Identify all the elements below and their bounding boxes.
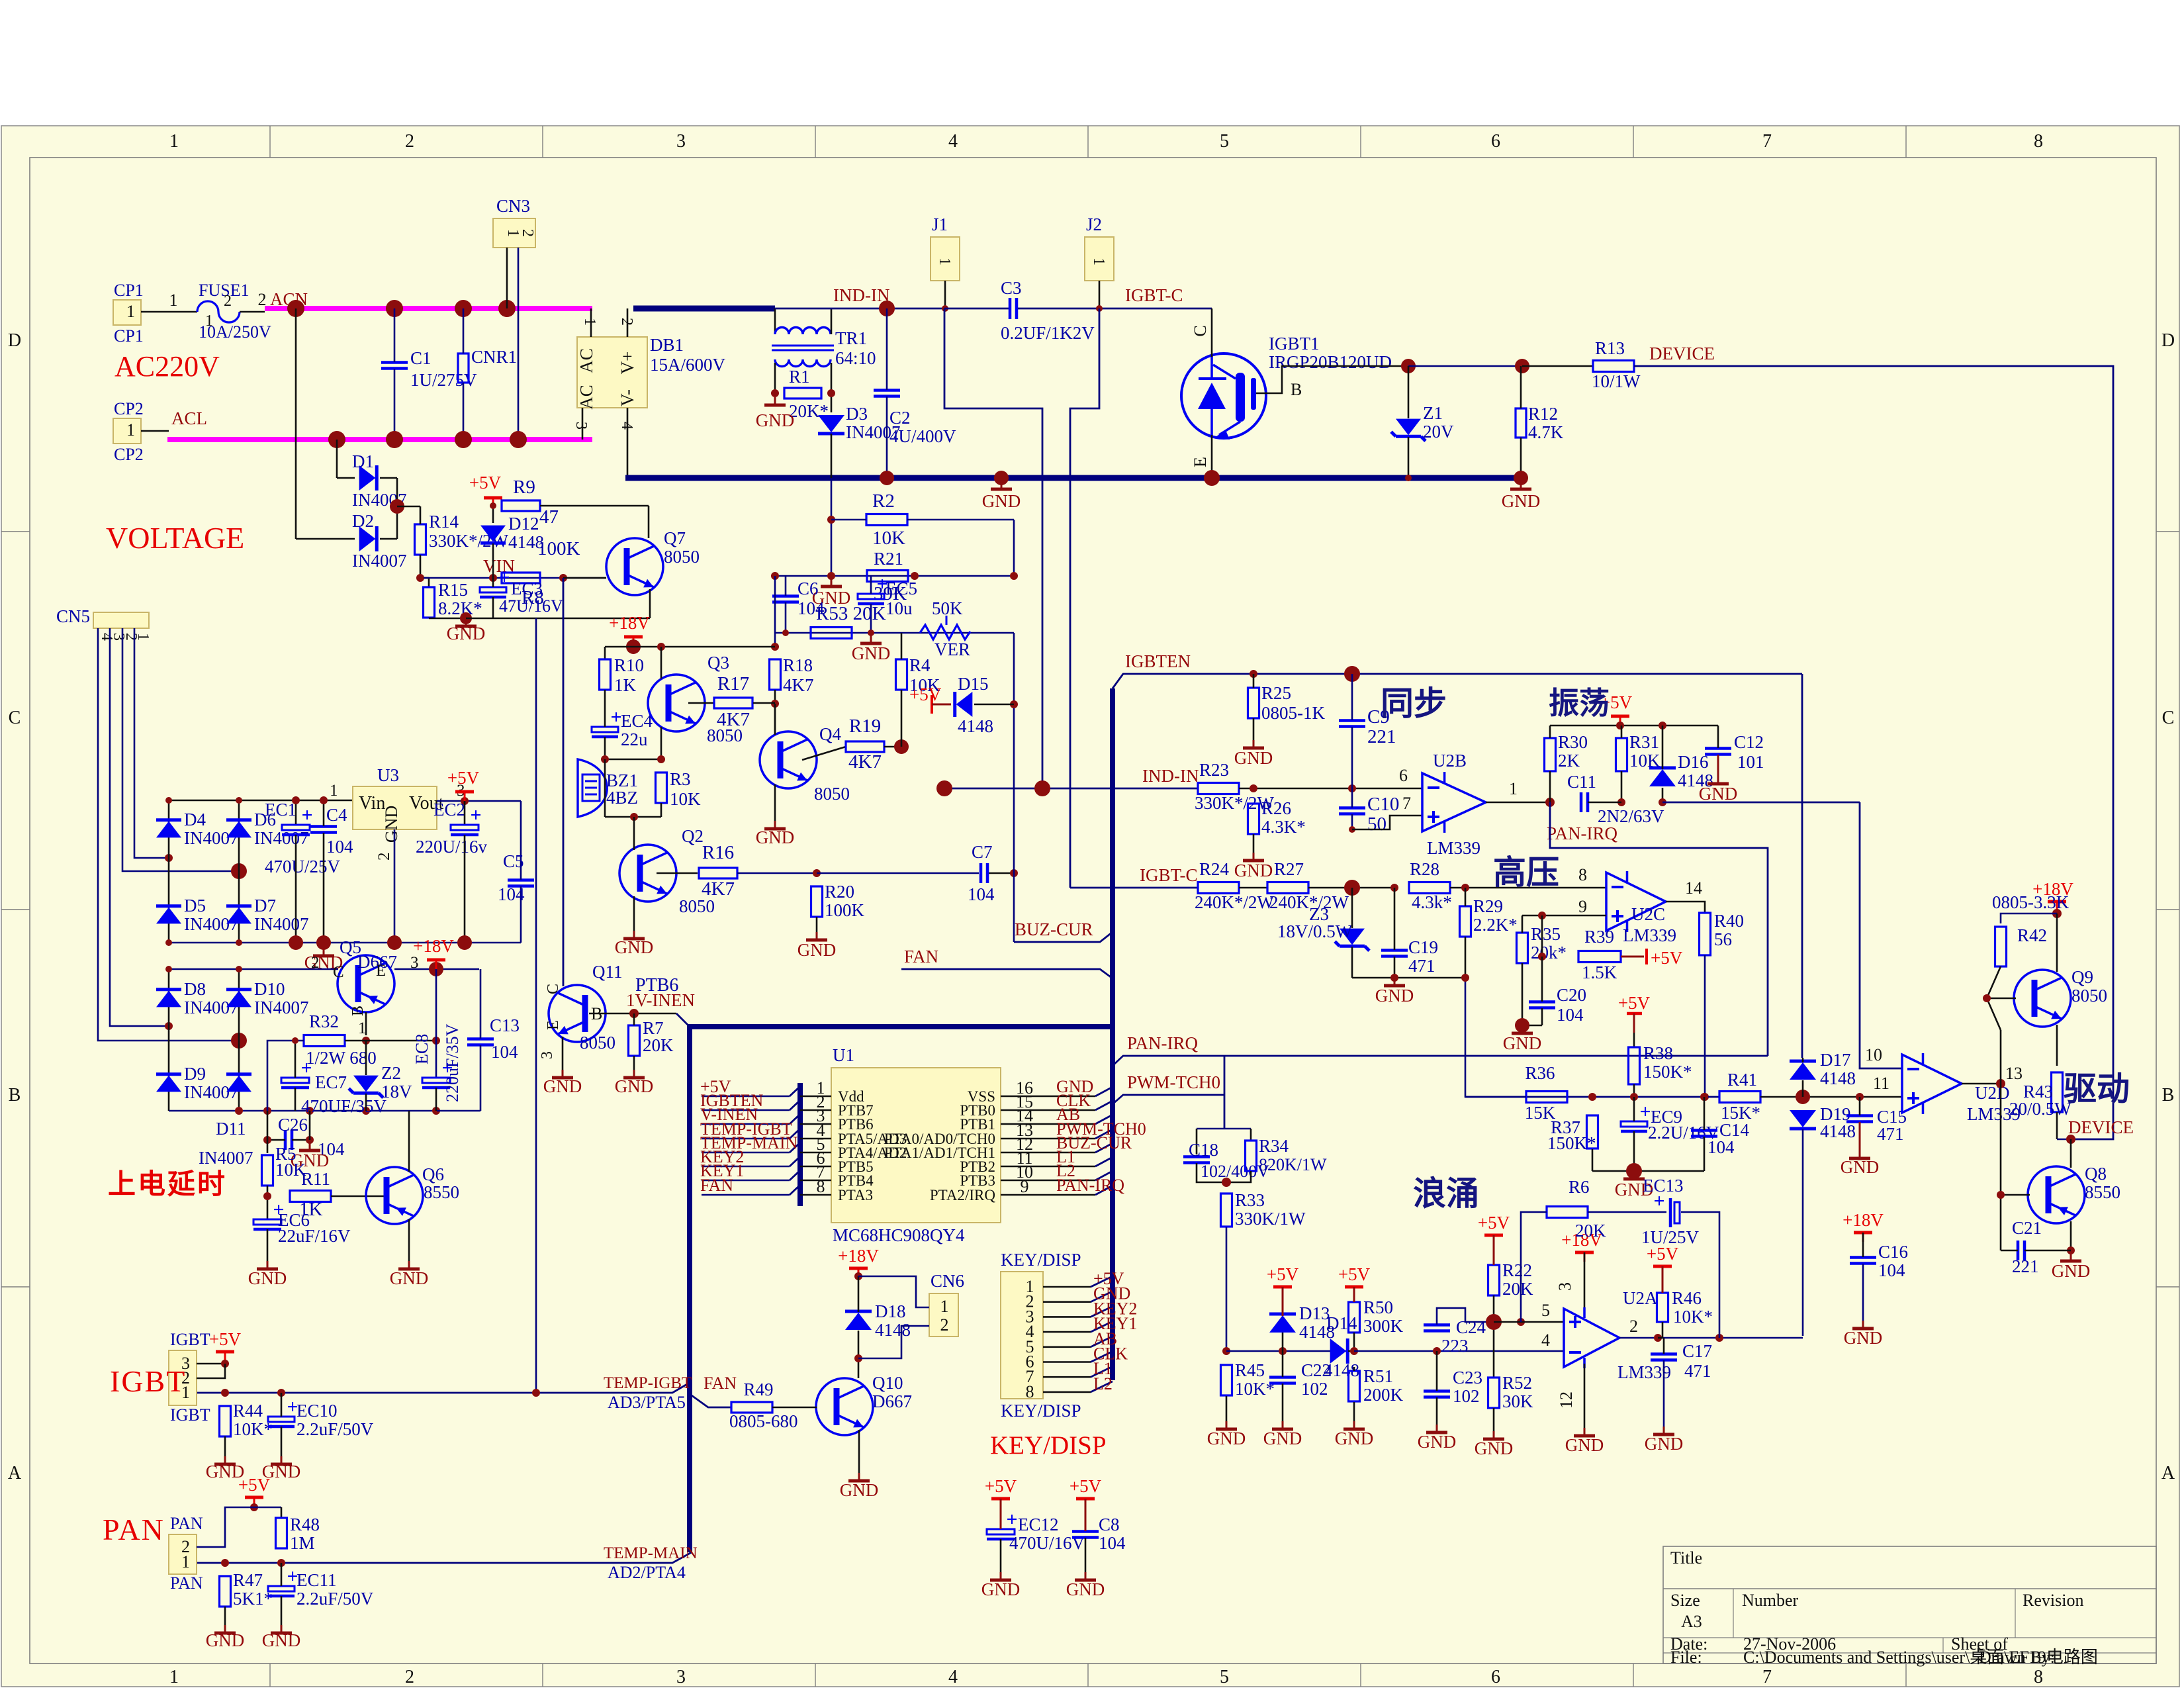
capacitor EC7 — [281, 1078, 309, 1083]
svg-text:+5V: +5V — [469, 473, 502, 492]
svg-text:V+: V+ — [617, 352, 637, 375]
svg-text:R11: R11 — [301, 1169, 330, 1189]
wire R38 bot — [1633, 1084, 1635, 1097]
connector J1 — [931, 237, 960, 281]
ground Q2 — [633, 931, 635, 937]
svg-text:高压: 高压 — [1493, 854, 1559, 891]
svg-text:A: A — [8, 1463, 22, 1483]
junction D10D11 mid — [231, 1033, 247, 1049]
wire U1 pin15 CLK — [1001, 1109, 1095, 1111]
svg-text:PAN-IRQ: PAN-IRQ — [1056, 1176, 1124, 1195]
diode D15 — [953, 692, 956, 717]
wire C14 — [1704, 1097, 1706, 1130]
svg-text:GND: GND — [1565, 1435, 1604, 1455]
svg-text:R4: R4 — [909, 655, 931, 675]
wire R5 col — [267, 1111, 269, 1153]
junction bz1 b — [657, 755, 665, 763]
ground EC5 — [870, 635, 872, 642]
wire D1/D2 join — [380, 477, 397, 479]
svg-text:150K*: 150K* — [1643, 1062, 1692, 1082]
svg-text:E: E — [1191, 457, 1210, 467]
capacitor C23 — [1424, 1389, 1450, 1393]
junction +5V R9 — [490, 502, 496, 509]
junction Q5 base — [362, 1037, 370, 1045]
svg-text:102: 102 — [1453, 1386, 1480, 1406]
ground R51 — [1353, 1421, 1355, 1428]
connector J2 — [1085, 237, 1114, 281]
svg-text:R22: R22 — [1502, 1260, 1532, 1280]
svg-text:IN4007: IN4007 — [199, 1148, 253, 1168]
junction EC11 top — [277, 1559, 285, 1567]
wire R39 row — [1541, 915, 1543, 957]
svg-text:Z1: Z1 — [1423, 403, 1443, 423]
junction Z3 — [1344, 880, 1360, 896]
wire Q7 emitter — [649, 589, 651, 618]
title block row line 2 — [1663, 1637, 2156, 1638]
ground R45 — [1226, 1421, 1228, 1428]
svg-text:EC10: EC10 — [296, 1401, 338, 1421]
svg-text:TEMP-IGBT: TEMP-IGBT — [604, 1374, 692, 1392]
svg-text:GND: GND — [1844, 1328, 1883, 1348]
wire U1 pin14 AB — [1001, 1123, 1095, 1125]
junction +18V Q5 — [429, 962, 443, 976]
wire D15 right — [974, 704, 1014, 706]
wire TEMP-MAIN row — [197, 1552, 692, 1563]
wire R36 left — [1465, 978, 1526, 1097]
wire U2C plus row — [1522, 915, 1606, 917]
svg-text:4.7K: 4.7K — [1528, 422, 1564, 442]
svg-text:R14: R14 — [429, 512, 459, 532]
wire base chain down — [2000, 1030, 2002, 1250]
wire R48 top — [281, 1507, 283, 1518]
svg-text:C19: C19 — [1408, 937, 1438, 957]
svg-text:1.5K: 1.5K — [1582, 962, 1617, 982]
wire PWM vertical — [1224, 1056, 1226, 1129]
junction R12 bus — [1514, 471, 1528, 485]
svg-text:8: 8 — [1578, 865, 1587, 884]
junction J1 — [942, 305, 948, 312]
ground EC6 — [267, 1261, 269, 1268]
svg-text:U2A: U2A — [1623, 1288, 1658, 1308]
bus V-INEN thick — [687, 1024, 1113, 1029]
diode D6 — [226, 818, 251, 821]
svg-text:R12: R12 — [1528, 404, 1558, 424]
frame column tick — [542, 126, 543, 158]
wire U1 pin5 TEMP-MAIN — [702, 1152, 790, 1154]
capacitor EC5 — [858, 594, 884, 599]
svg-text:8: 8 — [1026, 1382, 1034, 1401]
svg-text:9: 9 — [1021, 1177, 1029, 1196]
svg-text:浪涌: 浪涌 — [1413, 1175, 1479, 1212]
frame column tick — [1633, 126, 1634, 158]
junction row C14 — [1700, 1093, 1708, 1101]
wire VIN row — [424, 577, 606, 579]
svg-text:J2: J2 — [1086, 214, 1102, 234]
svg-text:4148: 4148 — [958, 716, 993, 736]
svg-text:R47: R47 — [233, 1570, 263, 1590]
svg-text:5: 5 — [1220, 1667, 1229, 1687]
wire Q8 collector — [2070, 1139, 2072, 1168]
junction b2 rail4 — [362, 1107, 370, 1115]
junction +5V U3 — [461, 797, 469, 805]
ground Q11 — [562, 1070, 564, 1076]
wire bz1 bottom rail — [605, 816, 661, 818]
connector CN5 — [93, 612, 149, 628]
title block row line 3 — [1663, 1652, 2156, 1654]
svg-text:D2: D2 — [352, 511, 374, 531]
svg-text:104: 104 — [498, 884, 525, 904]
junction U2C plus — [1538, 912, 1546, 919]
junction R1 right — [827, 389, 835, 397]
wire CN3 pin1 — [506, 248, 508, 308]
wire TR1 sec right — [831, 363, 833, 412]
svg-text:R15: R15 — [438, 580, 468, 600]
svg-text:GND: GND — [1263, 1429, 1302, 1448]
svg-text:Z2: Z2 — [381, 1063, 401, 1083]
wire C7 right — [989, 872, 1014, 874]
svg-text:C24: C24 — [1456, 1317, 1486, 1337]
svg-text:6: 6 — [1491, 1667, 1500, 1687]
svg-text:471: 471 — [1408, 956, 1435, 976]
svg-text:U1: U1 — [833, 1045, 854, 1065]
svg-text:CP2: CP2 — [114, 445, 144, 464]
opamp U2A plus-top — [1564, 1309, 1619, 1367]
capacitor C11 — [1580, 792, 1583, 812]
wire R24 R27 — [1239, 887, 1267, 889]
svg-text:R35: R35 — [1531, 924, 1561, 944]
svg-text:C: C — [545, 984, 562, 994]
resistor R30 — [1545, 738, 1556, 771]
svg-text:J1: J1 — [932, 214, 948, 234]
svg-text:R51: R51 — [1363, 1366, 1393, 1386]
svg-text:+18V: +18V — [1843, 1210, 1884, 1230]
wire R2 row — [831, 519, 866, 521]
wire R26 gnd — [1253, 834, 1255, 853]
junction VIN right — [559, 574, 567, 582]
svg-text:4BZ: 4BZ — [606, 788, 638, 808]
wire R25 — [1253, 674, 1255, 688]
ground C12 — [1717, 776, 1719, 782]
svg-text:IGBT: IGBT — [170, 1330, 210, 1349]
svg-text:R39: R39 — [1584, 927, 1614, 947]
junction r21 c — [911, 572, 919, 580]
svg-text:4K7: 4K7 — [717, 709, 750, 730]
svg-text:U2B: U2B — [1433, 751, 1467, 771]
wire J1 down — [944, 281, 946, 308]
svg-text:1U/25V: 1U/25V — [1641, 1227, 1700, 1247]
wire U1 pin3 V-INEN — [702, 1123, 790, 1125]
svg-text:GND: GND — [852, 643, 891, 663]
svg-text:7: 7 — [1762, 131, 1772, 152]
capacitor EC13 rotated — [1669, 1198, 1672, 1227]
junction ACL 1 — [328, 431, 345, 448]
transistor Q4 — [760, 731, 817, 788]
svg-text:101: 101 — [1737, 752, 1764, 772]
diode D3 — [818, 432, 844, 436]
svg-text:R33: R33 — [1235, 1190, 1265, 1210]
svg-text:GND: GND — [1207, 1429, 1246, 1448]
junction R46 out — [1654, 1334, 1662, 1342]
junction D17 D19 — [1796, 1090, 1810, 1104]
wire R21 row — [775, 575, 1014, 577]
svg-text:Q2: Q2 — [682, 826, 704, 846]
svg-text:+18V: +18V — [838, 1246, 879, 1266]
ground C17 — [1663, 1427, 1665, 1433]
ic U1 MC68HC908QY4 — [831, 1068, 1001, 1223]
svg-text:EC1: EC1 — [265, 800, 296, 820]
wire ACN down to D2 — [295, 308, 297, 539]
svg-text:100K: 100K — [537, 538, 580, 559]
transistor Q11 — [549, 985, 606, 1042]
svg-text:4.3K*: 4.3K* — [1261, 817, 1306, 837]
svg-text:Revision: Revision — [2023, 1591, 2083, 1610]
resistor R2 — [866, 514, 907, 526]
svg-text:File:: File: — [1670, 1648, 1702, 1667]
svg-text:R32: R32 — [309, 1011, 339, 1031]
svg-text:TR1: TR1 — [835, 328, 867, 348]
wire Q3 collector — [660, 647, 662, 679]
svg-text:1: 1 — [1509, 779, 1518, 798]
svg-text:C10: C10 — [1367, 794, 1399, 815]
resistor R47 — [220, 1576, 231, 1607]
ground R12 — [1520, 481, 1522, 488]
power +5V osc — [1611, 715, 1629, 718]
wire C16 — [1862, 1233, 1864, 1257]
svg-text:18V/0.5W: 18V/0.5W — [1277, 921, 1353, 941]
junction R5 R11 — [263, 1192, 271, 1200]
wire U1 pin9 PAN-IRQ — [1001, 1194, 1095, 1196]
svg-text:振荡: 振荡 — [1549, 686, 1610, 720]
ground EC11 — [281, 1625, 283, 1632]
svg-text:470UF/35V: 470UF/35V — [301, 1096, 387, 1116]
svg-text:10K: 10K — [872, 528, 905, 549]
resistor R45 — [1221, 1365, 1232, 1395]
junction R50 R51 — [1350, 1347, 1358, 1355]
junction ACN 2 — [386, 300, 403, 317]
resistor R16 — [699, 868, 737, 878]
resistor R13 — [1593, 361, 1634, 372]
ground C8 — [1085, 1572, 1087, 1579]
svg-text:GND: GND — [1234, 748, 1273, 768]
junction bridge1 d7 bot — [236, 939, 242, 946]
wire R8R7 vertical — [563, 578, 565, 986]
svg-text:GND: GND — [1503, 1033, 1542, 1053]
capacitor C6 — [772, 594, 799, 598]
svg-text:GND: GND — [1066, 1579, 1105, 1599]
wire C19 — [1394, 888, 1396, 950]
svg-text:1: 1 — [169, 1667, 179, 1687]
diode D7 — [226, 904, 251, 908]
capacitor C14 — [1691, 1129, 1717, 1132]
resistor R22 — [1488, 1265, 1500, 1295]
svg-text:GND: GND — [543, 1076, 582, 1096]
junction osc d16 — [1659, 722, 1666, 729]
svg-text:GND: GND — [1645, 1434, 1684, 1454]
junction R2 left — [827, 516, 835, 524]
resistor R15 — [424, 587, 435, 618]
svg-text:1M: 1M — [290, 1533, 315, 1553]
svg-text:471: 471 — [1877, 1124, 1904, 1144]
svg-text:IGBT-C: IGBT-C — [1140, 865, 1198, 885]
wire C17 — [1663, 1338, 1665, 1354]
svg-text:10/1W: 10/1W — [1592, 371, 1641, 391]
resistor R7 — [629, 1025, 640, 1056]
junction R39 left — [1538, 953, 1546, 961]
svg-text:2.2K*: 2.2K* — [1473, 915, 1518, 935]
wire KEY/DISP pin7 — [1043, 1376, 1091, 1378]
svg-text:1U/275V: 1U/275V — [410, 370, 477, 390]
svg-text:820K/1W: 820K/1W — [1259, 1155, 1327, 1174]
bus U1 left thick — [797, 1083, 803, 1206]
svg-text:D7: D7 — [254, 896, 276, 915]
capacitor C15 — [1846, 1114, 1873, 1117]
ground R7 — [633, 1070, 635, 1076]
wire R34 bot — [1226, 1171, 1251, 1182]
wire R19 right — [884, 746, 901, 748]
svg-text:1: 1 — [940, 1297, 949, 1316]
diode D2 — [375, 526, 379, 551]
wire U1 pin4 TEMP-IGBT — [702, 1138, 790, 1140]
ground C16 — [1862, 1321, 1864, 1327]
svg-text:R26: R26 — [1261, 798, 1291, 818]
svg-text:AC220V: AC220V — [114, 350, 220, 383]
svg-text:4148: 4148 — [1820, 1068, 1856, 1088]
svg-text:FAN: FAN — [704, 1374, 737, 1393]
svg-text:Q9: Q9 — [2071, 967, 2093, 987]
transistor IGBT1 — [1181, 353, 1266, 438]
svg-text:PAN: PAN — [170, 1573, 203, 1593]
wire bridge2 mid — [238, 969, 240, 1111]
wire Q4 collector — [774, 704, 776, 735]
svg-text:1: 1 — [581, 318, 598, 326]
svg-text:R28: R28 — [1410, 859, 1439, 879]
svg-text:C1: C1 — [410, 348, 432, 368]
svg-text:Title: Title — [1670, 1548, 1702, 1568]
svg-text:PAN-IRQ: PAN-IRQ — [1127, 1033, 1199, 1053]
capacitor EC12 — [987, 1529, 1015, 1534]
wire D19 junction — [1802, 1337, 1803, 1338]
svg-text:3: 3 — [676, 131, 686, 152]
resistor R52 — [1488, 1378, 1500, 1408]
junction base Z1 — [1401, 359, 1416, 373]
capacitor EC2 — [451, 825, 478, 830]
wire R6 left — [1521, 1212, 1547, 1322]
wire U1 pin6 KEY2 — [702, 1166, 790, 1168]
svg-text:R49: R49 — [743, 1380, 773, 1399]
svg-text:AD3/PTA5: AD3/PTA5 — [608, 1393, 686, 1412]
wire Q8 emitter — [2070, 1221, 2072, 1250]
junction Z1 bus — [1405, 475, 1412, 481]
junction gnd bus C2 — [880, 471, 894, 485]
junction d15 row — [1010, 700, 1018, 708]
wire C18 R34 split — [1197, 1128, 1251, 1130]
junction r21 b — [827, 572, 835, 580]
junction R17 R18 — [771, 700, 779, 708]
svg-text:KEY/DISP: KEY/DISP — [990, 1431, 1107, 1460]
svg-text:C: C — [1191, 325, 1210, 336]
svg-text:8050: 8050 — [2071, 986, 2107, 1006]
svg-text:R53 20K: R53 20K — [816, 603, 886, 624]
svg-text:56: 56 — [1714, 929, 1732, 949]
frame row tick — [1, 531, 30, 532]
wire bridge1 left — [168, 800, 170, 943]
svg-text:R19: R19 — [849, 716, 881, 737]
svg-text:+5V: +5V — [985, 1476, 1017, 1496]
svg-text:240K*/2W: 240K*/2W — [1195, 892, 1275, 912]
ground C26 — [309, 1143, 311, 1149]
svg-text:104: 104 — [1099, 1533, 1126, 1553]
transistor Q8 — [2028, 1166, 2085, 1223]
junction q2 coll — [630, 813, 638, 821]
wire U2B out — [1486, 802, 1550, 804]
svg-text:+5V: +5V — [238, 1475, 271, 1495]
wire D17 — [1802, 1058, 1804, 1062]
wire R50 — [1353, 1287, 1355, 1302]
svg-text:LM339: LM339 — [1623, 925, 1676, 945]
opamp U2D — [1902, 1055, 1962, 1113]
svg-text:5: 5 — [1541, 1301, 1550, 1320]
svg-text:D: D — [8, 330, 21, 351]
wire R14 to R15 — [420, 506, 422, 524]
svg-text:13: 13 — [2005, 1064, 2023, 1083]
svg-text:GND: GND — [982, 491, 1021, 511]
svg-text:4K7: 4K7 — [702, 878, 735, 900]
svg-text:D17: D17 — [1820, 1050, 1851, 1070]
wire R15 to gnd rail — [428, 618, 430, 618]
capacitor EC10 — [268, 1417, 295, 1422]
junction Q3 coll — [657, 643, 665, 651]
svg-text:1: 1 — [169, 131, 179, 152]
wire osc top rail — [1550, 725, 1718, 727]
svg-text:AD2/PTA4: AD2/PTA4 — [608, 1563, 686, 1582]
svg-text:R2: R2 — [872, 491, 895, 512]
wire Z3 — [1351, 888, 1353, 928]
wire bridge2 bottom rail — [169, 1110, 437, 1112]
svg-text:Size: Size — [1670, 1591, 1700, 1610]
svg-text:10K*: 10K* — [1235, 1379, 1275, 1399]
svg-text:2.2uF/50V: 2.2uF/50V — [296, 1419, 374, 1439]
svg-text:AC: AC — [576, 348, 596, 373]
svg-text:104: 104 — [491, 1042, 518, 1062]
svg-text:D18: D18 — [875, 1301, 906, 1321]
svg-text:12: 12 — [1557, 1391, 1576, 1409]
wire R12 to R13 — [1522, 365, 1593, 367]
ground vin divider — [460, 612, 472, 624]
svg-text:C23: C23 — [1453, 1368, 1482, 1387]
wire R16 right — [737, 872, 817, 874]
svg-text:C16: C16 — [1878, 1242, 1908, 1262]
wire R44 gnd — [224, 1436, 226, 1456]
svg-text:R44: R44 — [233, 1401, 263, 1421]
wire IND-IN to C3 — [944, 308, 1009, 310]
wire base to R12 node — [1408, 365, 1522, 367]
wire C26 right — [292, 1139, 310, 1141]
capacitor C13 — [467, 1037, 494, 1041]
svg-text:D9: D9 — [184, 1064, 206, 1084]
junction R32 18v — [432, 1037, 440, 1045]
power +5V C8 — [1076, 1497, 1095, 1501]
junction bridge1 d5 bot — [165, 939, 172, 946]
junction R45 top — [1222, 1347, 1230, 1355]
wire U1 pin2 IGBTEN — [702, 1109, 790, 1111]
wire surge row2 minus — [1354, 1350, 1564, 1352]
resistor R43 — [2052, 1072, 2063, 1112]
capacitor EC9 — [1621, 1121, 1647, 1127]
svg-text:104: 104 — [1557, 1005, 1584, 1025]
svg-text:R45: R45 — [1235, 1360, 1265, 1380]
power +18V U2A — [1575, 1251, 1594, 1254]
resistor R38 — [1629, 1047, 1640, 1084]
